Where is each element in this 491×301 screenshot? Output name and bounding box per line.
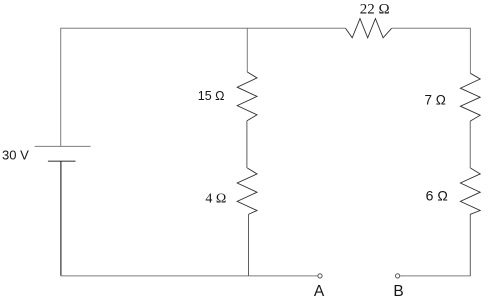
svg-text:A: A xyxy=(314,283,325,300)
svg-text:B: B xyxy=(393,283,403,300)
resistor 6ohm (vertical zigzag) xyxy=(460,168,480,214)
battery 30V long plate (positive) xyxy=(35,145,91,147)
terminal A (open circle) xyxy=(318,274,322,278)
resistor 7ohm (vertical zigzag) xyxy=(460,73,480,121)
svg-text:30 V: 30 V xyxy=(2,147,29,162)
svg-text:7 Ω: 7 Ω xyxy=(424,93,445,108)
svg-text:6 Ω: 6 Ω xyxy=(426,187,448,203)
wire right lower vertical xyxy=(469,214,471,276)
wire top-right horizontal xyxy=(392,27,471,29)
wire left lower vertical xyxy=(60,161,62,276)
svg-text:22 Ω: 22 Ω xyxy=(360,2,390,18)
wire left upper vertical xyxy=(60,28,62,147)
wire right upper vertical xyxy=(469,28,471,74)
wire top-left horizontal xyxy=(61,27,346,29)
resistor 15ohm (vertical zigzag) xyxy=(237,72,257,121)
wire middle lower vertical xyxy=(248,214,250,276)
resistor 4ohm (vertical zigzag) xyxy=(237,168,257,214)
battery 30V short plate (negative) xyxy=(48,160,76,162)
resistor 22ohm (horizontal zigzag) xyxy=(346,19,392,38)
wire middle between resistors xyxy=(246,121,248,168)
wire bottom-left horizontal xyxy=(61,275,318,277)
wire bottom-right horizontal xyxy=(400,275,471,277)
wire middle upper vertical xyxy=(246,28,248,72)
svg-text:15 Ω: 15 Ω xyxy=(198,89,225,103)
terminal B (open circle) xyxy=(396,274,400,278)
svg-text:4 Ω: 4 Ω xyxy=(205,192,226,207)
wire right middle vertical xyxy=(469,121,471,168)
